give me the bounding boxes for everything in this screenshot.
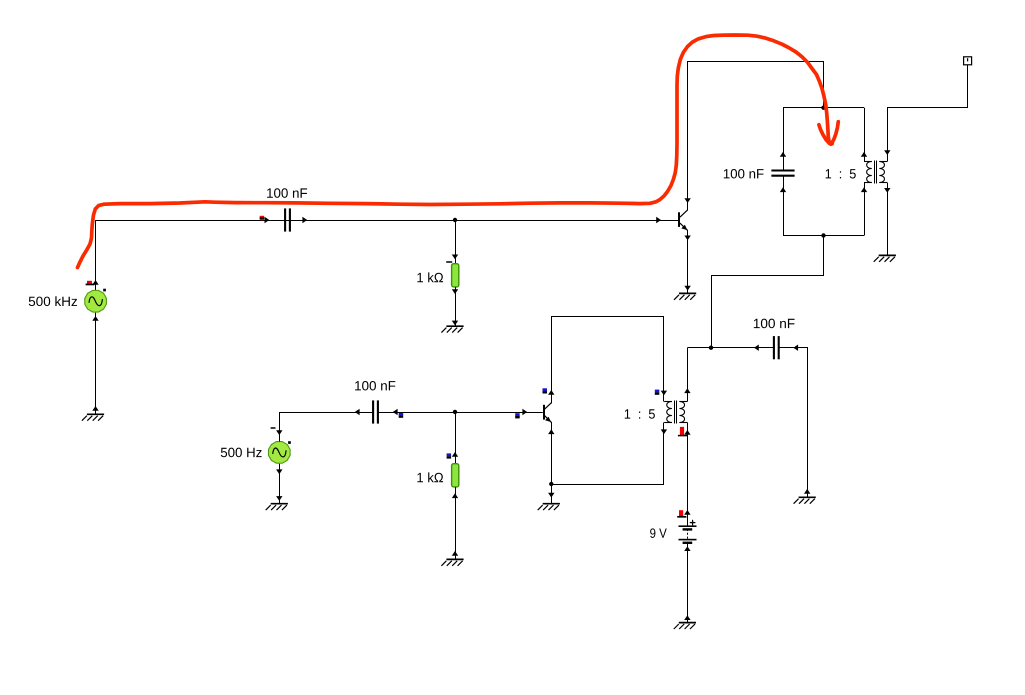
arrow right after C1: [302, 217, 307, 223]
transistor Q2 emitter diagonal: [544, 415, 551, 422]
capacitor C2 100 nF tank: [771, 171, 794, 176]
arrow up above ground G2: [92, 406, 98, 411]
transistor Q1 emitter diagonal: [680, 223, 688, 230]
marker red above battery: [677, 510, 686, 517]
ac source V1 500 kHz: [85, 290, 107, 312]
tick marker at V2 top: [271, 427, 276, 429]
arrow right into Q2 base: [522, 409, 527, 415]
wire junction to R2: [455, 412, 457, 464]
antenna terminal square: [964, 57, 972, 65]
wire junction to R1: [455, 220, 457, 264]
wire tank top rail: [783, 107, 864, 109]
arrow up above ground G6: [684, 615, 690, 620]
transistor Q2 emitter arrowhead: [545, 417, 551, 422]
label T1 ratio 1 : 5: [826, 169, 856, 178]
arrow down above ground G8: [548, 493, 554, 498]
wire R1 to ground G1: [455, 287, 457, 326]
ground G6 under battery: [674, 623, 696, 629]
transistor Q2 npn base bar: [543, 405, 545, 420]
arrow left before C4: [754, 345, 759, 351]
arrow up on Q2 emitter wire: [548, 429, 554, 434]
tick marker at R1 top: [446, 261, 452, 263]
junction node tank bottom: [821, 233, 825, 237]
arrow right before C1: [265, 217, 270, 223]
label R2 1 kOhm: [417, 472, 443, 482]
label C4 100 nF: [754, 319, 795, 329]
resistor R1 1 kOhm: [452, 264, 459, 287]
transistor Q1 collector diagonal: [680, 210, 688, 217]
wire tank right branch upper (T1 primary top): [864, 108, 866, 162]
wire T2 secondary bottom to battery: [687, 423, 689, 527]
marker blue before Q2 base: [515, 413, 520, 418]
arrow up below R2: [452, 493, 458, 498]
wire T1 secondary bottom to ground G4: [887, 183, 889, 256]
transistor Q1 emitter arrowhead: [681, 225, 687, 230]
marker blue at T2 primary top: [655, 390, 660, 395]
wire tank right branch lower (T1 primary bottom): [864, 183, 866, 236]
battery B1 9 V: [679, 525, 697, 544]
arrow left after C3: [393, 409, 398, 415]
ground G4 under T1 secondary: [874, 255, 896, 261]
arrow down above ground G9: [276, 496, 282, 501]
label T2 ratio 1 : 5: [625, 409, 655, 418]
transistor Q2 collector diagonal: [544, 403, 551, 410]
arrow up above battery: [684, 510, 690, 515]
label C2 100 nF: [724, 169, 764, 179]
arrow up on T2 secondary top lead: [684, 388, 690, 393]
arrow up at V1 top: [92, 280, 98, 285]
junction node top wire / R1: [453, 218, 457, 222]
ground G2 under V1: [82, 414, 104, 420]
ground G9 under V2: [266, 504, 288, 510]
arrow up on T1 primary top lead: [861, 152, 867, 157]
marker red-black on top wire: [260, 216, 264, 220]
wire C3 to Q2 base: [378, 412, 542, 414]
marker blue after C3: [399, 413, 404, 418]
arrow up below battery: [684, 546, 690, 551]
wire T1 secondary top to antenna: [888, 65, 968, 162]
arrow up on T2 secondary bottom lead: [684, 430, 690, 435]
node dot near V2: [288, 441, 291, 444]
arrow left toward V2: [355, 409, 360, 415]
marker blue above R2: [447, 453, 452, 458]
wire tank bottom rail: [783, 235, 864, 237]
arrow down on Q1 collector wire: [684, 198, 690, 203]
transistor Q1 npn base bar: [678, 212, 680, 227]
freehand annotation arrowhead right arm: [831, 122, 838, 144]
junction node at R2: [453, 410, 457, 414]
arrow right near Q1 base: [656, 217, 661, 223]
ground G7 under R2: [441, 559, 463, 565]
wire Q1 collector up and over to tank: [688, 62, 824, 211]
wire top horizontal net (source to Q1 base): [96, 220, 679, 222]
wire Q1 emitter to ground G3: [687, 230, 689, 293]
arrow down on Q1 emitter wire: [684, 236, 690, 241]
wire Q2 collector loop to T2 primary top: [552, 317, 664, 404]
label B1 9 V: [650, 528, 667, 538]
arrow up on Q2 collector wire: [548, 390, 554, 395]
arrow down below V2: [276, 469, 282, 474]
arrow up on tank cap top lead: [780, 152, 786, 157]
arrow up on tank cap bottom lead: [780, 187, 786, 192]
wire mid vertical down to T2 secondary: [687, 348, 689, 402]
ac source V2 500 Hz: [268, 442, 290, 464]
wire tank left branch lower: [783, 176, 785, 235]
arrow down below R1: [452, 289, 458, 294]
wire source V1 top: [95, 220, 97, 290]
capacitor C4 100 nF: [774, 336, 779, 359]
transformer T2 1:5: [664, 401, 687, 424]
wire tank left branch upper: [783, 108, 785, 170]
ground G8 under Q2 emitter: [538, 504, 560, 510]
transformer T1 1:5: [864, 161, 887, 184]
wire mid horizontal to C4: [687, 347, 773, 349]
label V2 500 Hz: [221, 448, 262, 458]
label R1 1 kOhm: [417, 272, 443, 282]
arrow down above ground G3: [684, 286, 690, 291]
wire emitter junction loop to T2 primary bottom: [552, 423, 664, 485]
arrow down on T2 primary bottom lead: [661, 429, 667, 434]
ground G3 under Q1 emitter: [674, 293, 696, 299]
arrow up above R2: [452, 452, 458, 457]
resistor R2 1 kOhm: [452, 464, 459, 487]
node dot near V1: [103, 289, 106, 292]
arrow up above ground G5: [804, 489, 810, 494]
arrow up below V1: [92, 316, 98, 321]
junction node Q2 emitter: [549, 482, 553, 486]
arrow down on T1 secondary bottom lead: [884, 188, 890, 193]
wire battery to ground G6: [687, 544, 689, 623]
freehand annotation stroke (orange): [78, 35, 833, 268]
wire V2 bottom to ground G9: [279, 464, 281, 504]
label C3 100 nF: [355, 381, 395, 391]
arrow up above ground G7: [452, 551, 458, 556]
ground G5 under C4 branch: [794, 497, 816, 503]
arrow up on T1 primary bottom lead: [861, 187, 867, 192]
marker blue at Q2 collector: [543, 388, 548, 393]
marker red at T2 secondary bottom: [678, 427, 687, 436]
wire R2 to ground G7: [455, 487, 457, 559]
marker red-black at V1 top: [86, 281, 95, 286]
arrow down above ground G1: [452, 321, 458, 326]
arrow down above R1: [452, 255, 458, 260]
label C1 100 nF: [267, 188, 307, 198]
ground G1 under R1: [441, 326, 463, 332]
freehand annotation arrowhead left arm: [819, 125, 830, 144]
wire Q2 emitter down to junction: [551, 422, 553, 484]
arrow left after C4: [793, 345, 798, 351]
battery plus sign: [690, 520, 696, 526]
wire emitter junction to ground G8: [551, 484, 553, 504]
wire tank bottom junction down-left to mid node: [712, 236, 824, 348]
wire C4 right to ground G5: [780, 348, 808, 498]
label V1 500 kHz: [29, 296, 77, 306]
arrow down above V2: [276, 430, 282, 435]
capacitor C1 100 nF coupling: [285, 208, 290, 231]
junction node mid feed: [709, 346, 713, 350]
wire V1 bottom to ground: [95, 313, 97, 415]
capacitor C3 100 nF coupling: [373, 400, 378, 423]
wire V2 top up and right: [280, 413, 373, 442]
arrow down on T1 secondary top lead: [884, 150, 890, 155]
arrow down into T2 primary top: [661, 391, 667, 396]
junction node tank top: [821, 106, 825, 110]
